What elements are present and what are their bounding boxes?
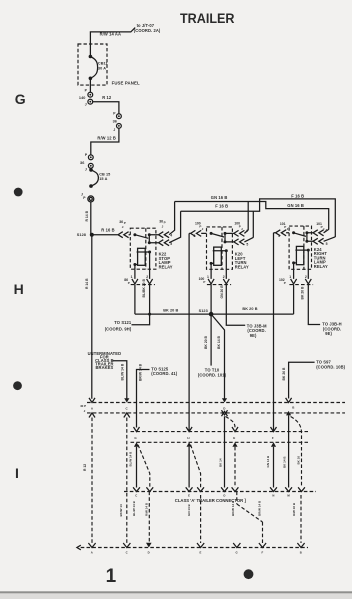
svg-text:S128: S128 (77, 233, 86, 237)
svg-text:(COORD. 9H): (COORD. 9H) (105, 326, 132, 331)
svg-text:BK 14: BK 14 (218, 458, 222, 467)
circuit breaker CB11 (89, 55, 108, 80)
svg-text:3: 3 (193, 234, 195, 238)
svg-text:J: J (85, 167, 87, 171)
svg-text:BL/BK 20 B: BL/BK 20 B (142, 278, 146, 297)
relay K24 box (289, 226, 311, 269)
wire to S121 (132, 285, 150, 325)
wire R 14 B (90, 202, 92, 235)
pin D (222, 398, 228, 416)
relay K24 internals (292, 231, 311, 269)
connector 86 below K22 (124, 269, 155, 285)
svg-text:GN 20 B: GN 20 B (220, 285, 224, 299)
circuit breaker CB15 (89, 168, 110, 188)
svg-text:I: I (15, 465, 19, 481)
wire R/W 12 B (91, 128, 119, 155)
svg-text:1: 1 (207, 275, 209, 279)
svg-text:2: 2 (223, 275, 225, 279)
relay K20 label (235, 252, 249, 270)
wire BL/W 14 B from unterminated (113, 361, 127, 399)
svg-text:BK/W 14 B: BK/W 14 B (231, 500, 235, 516)
svg-text:15 A: 15 A (99, 177, 107, 181)
svg-text:P: P (203, 280, 205, 284)
svg-text:P: P (124, 221, 126, 225)
svg-text:GN 14 B: GN 14 B (187, 503, 191, 516)
svg-text:F: F (261, 551, 263, 555)
svg-text:30 A: 30 A (98, 66, 106, 70)
margin bullet (13, 381, 22, 390)
svg-text:BK 20 B: BK 20 B (163, 309, 178, 313)
splice S123 (210, 285, 212, 366)
connector 100 pins 4,5 right of K20 (232, 221, 253, 246)
svg-text:1: 1 (106, 566, 117, 587)
bottom bullet (244, 569, 254, 579)
trailer side row (81, 547, 308, 549)
connector 140 P/J (79, 89, 93, 107)
wire from K20 pin3 down (188, 233, 190, 431)
svg-text:TO S121: TO S121 (114, 320, 132, 325)
relay K22 label (159, 252, 173, 270)
svg-text:R 14 B: R 14 B (85, 210, 89, 221)
svg-text:GN 16 B: GN 16 B (211, 195, 228, 200)
svg-text:J: J (113, 128, 115, 132)
svg-text:GN 16 B: GN 16 B (287, 203, 304, 208)
svg-text:1: 1 (289, 275, 291, 279)
wire R 16 B (92, 234, 118, 236)
svg-text:R/W 12 B: R/W 12 B (97, 136, 116, 141)
svg-text:R 12: R 12 (83, 464, 87, 471)
wire to S97 (289, 362, 315, 398)
svg-text:R/W 14 AA: R/W 14 AA (100, 32, 121, 37)
connector 100 pin 3 left of K20 (189, 221, 206, 238)
wire BL/BK 20 B (134, 285, 136, 315)
svg-text:F 16 B: F 16 B (291, 193, 304, 198)
svg-text:BR/W 14 B: BR/W 14 B (257, 500, 261, 516)
svg-text:4: 4 (325, 229, 327, 233)
svg-text:36: 36 (80, 161, 84, 165)
svg-text:C: C (135, 494, 137, 498)
svg-text:J: J (85, 102, 87, 106)
svg-text:9E): 9E) (250, 333, 257, 338)
svg-text:40 P: 40 P (80, 404, 86, 408)
svg-text:BL/W 14 B: BL/W 14 B (129, 451, 133, 467)
svg-text:36: 36 (119, 220, 123, 224)
svg-text:G: G (236, 551, 238, 555)
pin A (89, 398, 95, 418)
wire F 16 B rail (181, 199, 336, 237)
wire K24 ground to bus (293, 285, 295, 315)
svg-text:P: P (128, 281, 130, 285)
wire to S125 (137, 370, 150, 428)
trailer row pins (88, 543, 304, 555)
wire R 12 (93, 102, 119, 114)
svg-text:RELAY: RELAY (235, 265, 249, 270)
svg-text:(COORD. 2A): (COORD. 2A) (134, 28, 161, 33)
svg-text:S123: S123 (199, 309, 208, 313)
relay K20 box (207, 227, 233, 269)
wire riser K22 pin4 to GN rail (169, 202, 175, 235)
svg-text:RELAY: RELAY (159, 265, 173, 270)
svg-text:BL/W 14 B: BL/W 14 B (132, 500, 136, 516)
svg-text:R 12: R 12 (102, 95, 112, 100)
pin C (124, 398, 130, 417)
svg-text:B: B (300, 551, 302, 555)
row pins (133, 487, 305, 497)
svg-text:(COORD. 10B): (COORD. 10B) (316, 364, 345, 369)
relay K20 internals (210, 232, 233, 269)
wire pin A below (dashed) (91, 418, 93, 544)
svg-text:TRAILER: TRAILER (180, 11, 235, 27)
connector 40 row P (87, 402, 345, 404)
wire (89, 78, 91, 92)
svg-text:R/W 16 B: R/W 16 B (292, 502, 296, 516)
trailer connector row (124, 491, 316, 493)
inline connector (88, 196, 94, 202)
svg-text:H: H (14, 281, 24, 297)
pin B (286, 398, 296, 416)
svg-text:E: E (188, 494, 190, 498)
connector 102 below K24 (279, 269, 313, 285)
svg-text:D: D (148, 551, 150, 555)
relay K22 internals (133, 233, 156, 269)
svg-text:FUSE PANEL: FUSE PANEL (112, 80, 140, 85)
svg-text:N: N (272, 494, 274, 498)
connector 36 P/J (113, 111, 122, 132)
wire feed to J/T-07 (90, 28, 135, 57)
relay K22 box (130, 228, 156, 269)
svg-text:36: 36 (159, 219, 163, 223)
svg-text:2: 2 (305, 275, 307, 279)
connector 40 row J (87, 412, 345, 414)
splice S128 (90, 233, 94, 237)
bottom scan edge line (0, 591, 352, 593)
wire labels lower (119, 500, 296, 517)
svg-text:BK/W 14: BK/W 14 (119, 504, 123, 517)
svg-text:GN 14 B: GN 14 B (266, 455, 270, 468)
diagonal wire from S123 down (211, 314, 224, 399)
pin F column (266, 427, 277, 488)
connector row 4 (131, 441, 309, 443)
connector 100 below K20 (199, 269, 232, 284)
wire pin B below (288, 415, 290, 487)
svg-text:BK 16: BK 16 (297, 456, 301, 465)
svg-text:BK 20 B: BK 20 B (301, 286, 305, 300)
svg-text:BRAKES: BRAKES (95, 365, 113, 370)
fuse panel box (78, 44, 107, 85)
svg-text:G: G (15, 91, 26, 107)
svg-text:(COORD. 101): (COORD. 101) (198, 372, 227, 377)
dashed drops to trailer line (148, 492, 150, 543)
svg-text:BR/W 14 B: BR/W 14 B (139, 363, 143, 381)
connector 101 pins 4,5 right of K24 (312, 222, 336, 246)
svg-text:RELAY: RELAY (314, 264, 328, 269)
svg-text:C: C (126, 551, 128, 555)
wire to J3B-M (226, 285, 245, 326)
svg-text:F 16 B: F 16 B (215, 204, 228, 209)
connector 36 pins 4,5 right of K22 (156, 219, 172, 246)
svg-text:BK 14 B: BK 14 B (282, 456, 286, 468)
wire pin C below (dashed) (126, 418, 128, 544)
svg-text:5: 5 (246, 242, 248, 246)
relay K24 label (314, 247, 328, 269)
svg-text:4: 4 (246, 229, 248, 233)
svg-text:BL/W 14 B: BL/W 14 B (120, 363, 124, 380)
connector row 3 (131, 431, 309, 433)
svg-text:CLASS 'A' TRAILER CONNECTOR ]: CLASS 'A' TRAILER CONNECTOR ] (175, 498, 247, 503)
svg-text:2: 2 (146, 275, 148, 279)
wire GN 16 B rail (175, 202, 329, 230)
svg-text:R 16 B: R 16 B (101, 227, 114, 232)
svg-text:H: H (187, 436, 189, 440)
svg-text:CB11: CB11 (98, 61, 108, 65)
svg-text:BK 20 B: BK 20 B (242, 307, 257, 311)
pin E column (226, 417, 239, 488)
margin bullet (14, 188, 23, 197)
dashed jumper from pin B (291, 417, 302, 488)
svg-text:BK 20 B: BK 20 B (204, 335, 208, 349)
connector 36 P/J into relay K22 (118, 220, 130, 238)
svg-text:P: P (164, 221, 166, 225)
svg-text:9E): 9E) (325, 331, 332, 336)
svg-text:R 14 B: R 14 B (85, 278, 89, 289)
connector 101 pin 3 left of K24 (274, 222, 290, 238)
svg-text:36: 36 (113, 120, 117, 124)
wire from K24 pin3 down (273, 233, 275, 432)
svg-text:(COORD. 41): (COORD. 41) (151, 371, 177, 376)
svg-text:P: P (284, 281, 286, 285)
wire pin D below (224, 416, 226, 487)
main wire down from S128 (91, 235, 93, 399)
svg-text:R/W 14 B: R/W 14 B (145, 502, 149, 516)
pin H column (186, 427, 201, 488)
svg-text:140: 140 (79, 96, 86, 100)
svg-text:F: F (272, 436, 274, 440)
svg-text:E: E (233, 436, 235, 440)
svg-text:E: E (199, 551, 201, 555)
pin G column (129, 427, 150, 488)
svg-text:5: 5 (326, 242, 328, 246)
label unterminated class B (88, 351, 122, 370)
svg-text:CB 15: CB 15 (99, 172, 110, 176)
svg-text:3: 3 (278, 234, 280, 238)
svg-text:BK 20 B: BK 20 B (282, 367, 286, 381)
svg-text:BK 14 B: BK 14 B (217, 335, 221, 349)
svg-text:1: 1 (131, 275, 133, 279)
connector 36 P/J (second) (80, 153, 93, 171)
wire to J3B-H (308, 285, 320, 325)
wire riser K22 pin5 to F rail (169, 211, 181, 243)
ground bus wire BK 20 B (135, 313, 294, 315)
svg-text:A: A (91, 551, 93, 555)
